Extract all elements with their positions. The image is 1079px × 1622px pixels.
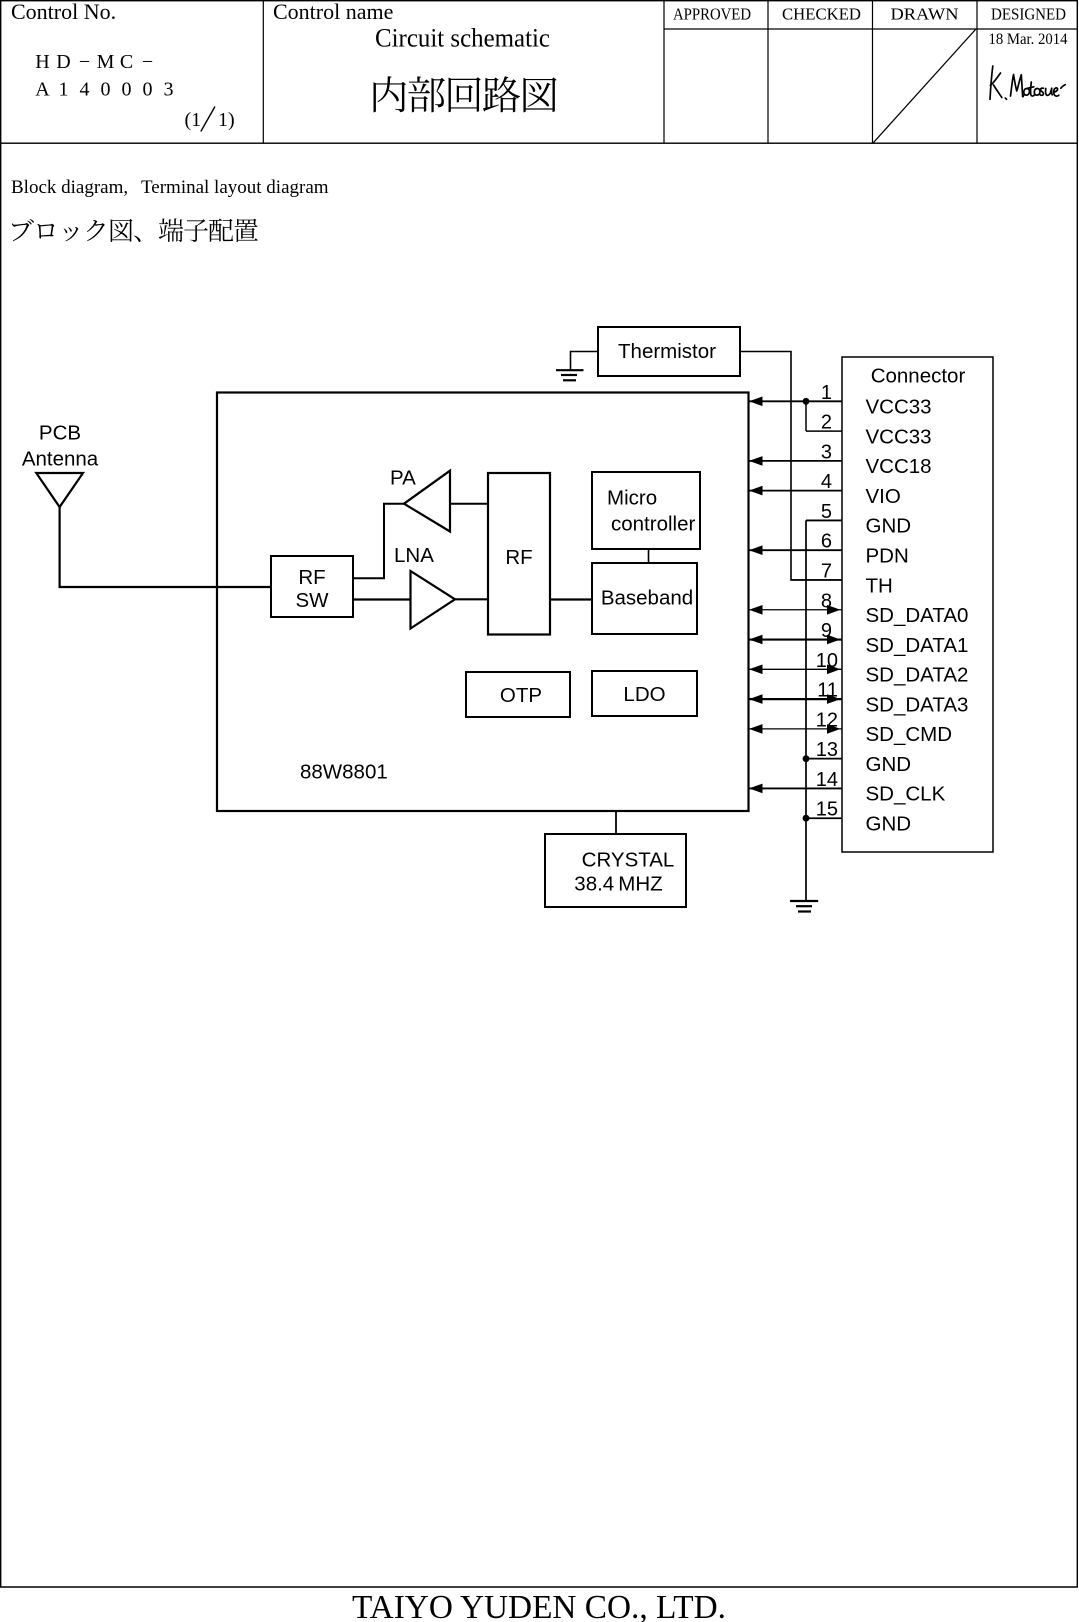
- wire RF SW to PA output: [353, 504, 404, 579]
- svg-text:Terminal layout diagram: Terminal layout diagram: [141, 177, 329, 198]
- signature K.Motosue: [990, 66, 1065, 99]
- svg-text:11: 11: [817, 680, 838, 702]
- svg-text:A: A: [35, 79, 50, 101]
- svg-text:controller: controller: [611, 513, 695, 536]
- label RF: [505, 546, 532, 569]
- OTP box: [466, 672, 570, 717]
- pin 4 number: [821, 471, 832, 493]
- svg-text:3: 3: [164, 79, 174, 101]
- svg-text:VCC33: VCC33: [866, 396, 932, 419]
- svg-text:Block diagram,: Block diagram,: [11, 177, 128, 198]
- CRYSTAL box: [545, 834, 686, 907]
- pin 12 number: [816, 709, 838, 731]
- label Control name: [273, 0, 393, 24]
- title block divider approved / checked: [767, 0, 769, 144]
- title block divider checked / drawn: [872, 0, 874, 144]
- svg-text:TH: TH: [866, 574, 893, 597]
- title Circuit schematic: [375, 24, 550, 53]
- RF SW box: [271, 556, 353, 617]
- pin 2 VCC33 wire: [806, 430, 842, 432]
- svg-text:RF: RF: [505, 546, 532, 569]
- pin 11 number: [817, 680, 838, 702]
- svg-text:SD_DATA3: SD_DATA3: [866, 693, 969, 716]
- Baseband box: [592, 563, 697, 634]
- pin 12 SD_CMD wire: [749, 724, 842, 734]
- svg-text:APPROVED: APPROVED: [673, 5, 751, 24]
- label DESIGNED: [991, 5, 1066, 24]
- amplifier PA (triangle pointing left): [404, 471, 450, 532]
- svg-text:0: 0: [122, 79, 132, 101]
- svg-text:Antenna: Antenna: [22, 448, 99, 471]
- svg-text:CHECKED: CHECKED: [782, 5, 861, 24]
- svg-text:CRYSTAL: CRYSTAL: [582, 849, 675, 872]
- wire pin 2 to pin 1 junction: [805, 401, 807, 431]
- pin 9 number: [821, 620, 832, 642]
- pin 13 name GND: [866, 753, 912, 776]
- svg-text:4: 4: [821, 471, 832, 493]
- label Thermistor: [618, 340, 716, 363]
- svg-text:0: 0: [143, 79, 153, 101]
- svg-text:LNA: LNA: [394, 544, 434, 567]
- pin 10 name SD_DATA2: [866, 664, 969, 687]
- label LNA: [394, 544, 434, 567]
- title block divider control-name / approved: [663, 0, 665, 144]
- GND bus vertical wire: [805, 520, 807, 901]
- svg-text:LDO: LDO: [623, 683, 665, 706]
- label Control No.: [11, 0, 116, 24]
- pin 9 SD_DATA1 wire: [749, 635, 842, 645]
- pin 3 number: [821, 441, 832, 463]
- svg-text:0: 0: [101, 79, 111, 101]
- wire Micro controller to Baseband: [648, 549, 650, 563]
- Connector box: [842, 357, 993, 852]
- svg-text:18 Mar. 2014: 18 Mar. 2014: [989, 31, 1068, 48]
- svg-text:38.4 MHZ: 38.4 MHZ: [574, 873, 662, 896]
- label OTP: [500, 684, 542, 707]
- svg-text:4: 4: [80, 79, 90, 101]
- svg-text:M: M: [97, 51, 115, 73]
- pin 6 PDN wire: [749, 545, 842, 555]
- label DRAWN: [891, 5, 959, 24]
- wire LNA output to RF box: [455, 598, 488, 600]
- svg-text:TAIYO YUDEN CO., LTD.: TAIYO YUDEN CO., LTD.: [352, 1589, 726, 1622]
- wire Thermistor to ground: [571, 352, 599, 371]
- Thermistor box: [598, 327, 740, 376]
- svg-text:9: 9: [821, 620, 832, 642]
- label APPROVED: [673, 5, 751, 24]
- content frame bottom border: [0, 1586, 1078, 1588]
- pin 15 number: [816, 799, 838, 821]
- pin 6 name PDN: [866, 545, 909, 568]
- pin 11 SD_DATA3 wire: [749, 694, 842, 704]
- pin 2 name VCC33: [866, 425, 932, 448]
- wire antenna to RF SW: [60, 507, 271, 587]
- label CHECKED: [782, 5, 861, 24]
- pin 15 name GND: [866, 813, 912, 836]
- svg-text:Thermistor: Thermistor: [618, 340, 716, 363]
- svg-text:SD_DATA0: SD_DATA0: [866, 604, 969, 627]
- pin 13 GND wire: [806, 758, 842, 760]
- svg-text:SD_CLK: SD_CLK: [866, 783, 946, 806]
- wire Thermistor to connector pin 7 (TH): [740, 352, 842, 581]
- wire RF SW to LNA input: [353, 598, 411, 600]
- svg-text:SD_DATA2: SD_DATA2: [866, 664, 969, 687]
- pin 5 name GND: [866, 515, 912, 538]
- junction dot pin 1: [803, 398, 810, 405]
- svg-text:D: D: [56, 51, 70, 73]
- label CRYSTAL 38.4 MHZ: [574, 849, 674, 896]
- pin 14 number: [816, 769, 838, 791]
- label 88W8801: [300, 761, 388, 784]
- svg-text:1: 1: [59, 79, 69, 101]
- svg-text:14: 14: [816, 769, 838, 791]
- pin 5 number: [821, 501, 832, 523]
- svg-text:(1: (1: [185, 109, 202, 131]
- pin 5 GND wire: [806, 519, 842, 521]
- pin 1 number: [821, 382, 832, 404]
- svg-text:PDN: PDN: [866, 545, 909, 568]
- title block divider drawn / designed: [976, 0, 978, 144]
- svg-text:15: 15: [816, 799, 838, 821]
- pin 14 SD_CLK wire: [749, 784, 842, 794]
- title block outer frame: [1, 1, 1078, 144]
- pin 11 name SD_DATA3: [866, 693, 969, 716]
- diagonal slash in DRAWN cell: [874, 30, 976, 143]
- svg-text:2: 2: [821, 412, 832, 434]
- pin 14 name SD_CLK: [866, 783, 946, 806]
- svg-text:10: 10: [816, 650, 838, 672]
- svg-text:PCB: PCB: [39, 422, 81, 445]
- svg-text:1: 1: [821, 382, 832, 404]
- chip 88W8801 block: [217, 393, 749, 812]
- pin 3 name VCC18: [866, 455, 932, 478]
- pin 12 name SD_CMD: [866, 723, 953, 746]
- antenna symbol: [36, 473, 83, 507]
- RF box: [488, 473, 550, 635]
- pin 10 number: [816, 650, 838, 672]
- svg-text:GND: GND: [866, 753, 912, 776]
- svg-text:VCC18: VCC18: [866, 455, 932, 478]
- svg-text:5: 5: [821, 501, 832, 523]
- label PA: [390, 466, 416, 489]
- svg-text:8: 8: [821, 590, 832, 612]
- pin 8 name SD_DATA0: [866, 604, 969, 627]
- label LDO: [623, 683, 665, 706]
- pin 10 SD_DATA2 wire: [749, 665, 842, 675]
- ground symbol (thermistor): [556, 370, 584, 380]
- svg-text:GND: GND: [866, 515, 912, 538]
- svg-text:Circuit schematic: Circuit schematic: [375, 24, 550, 53]
- content frame right border: [1076, 144, 1078, 1587]
- title block divider control-no / control-name: [262, 0, 264, 144]
- pin 7 number: [821, 561, 832, 583]
- svg-text:13: 13: [816, 739, 838, 761]
- svg-text:OTP: OTP: [500, 684, 542, 707]
- pin 4 name VIO: [866, 485, 901, 508]
- pin 3 VCC18 wire: [749, 456, 842, 466]
- wire PA input from RF: [450, 503, 488, 505]
- content frame left border: [0, 144, 2, 1587]
- pin 13 number: [816, 739, 838, 761]
- label Baseband: [601, 587, 693, 610]
- label Connector: [871, 365, 966, 388]
- junction dot pin 13: [803, 755, 810, 762]
- svg-text:Control No.: Control No.: [11, 0, 116, 24]
- pin 1 name VCC33: [866, 396, 932, 419]
- pin 4 VIO wire: [749, 486, 842, 496]
- pin 15 GND wire: [806, 817, 842, 819]
- svg-text:Micro: Micro: [607, 487, 657, 510]
- svg-text:PA: PA: [390, 466, 416, 489]
- svg-text:VIO: VIO: [866, 485, 901, 508]
- amplifier LNA (triangle pointing right): [411, 571, 456, 629]
- pin 8 number: [821, 590, 832, 612]
- svg-text:3: 3: [821, 441, 832, 463]
- svg-text:SW: SW: [295, 589, 329, 612]
- pin 2 number: [821, 412, 832, 434]
- control number line 1 HD-MC-: [35, 51, 153, 73]
- svg-text:C: C: [120, 51, 133, 73]
- title Japanese 内部回路図: [374, 76, 557, 112]
- svg-text:88W8801: 88W8801: [300, 761, 388, 784]
- svg-text:DRAWN: DRAWN: [891, 5, 959, 24]
- label PCB Antenna: [22, 422, 99, 471]
- footer company name: [352, 1589, 726, 1622]
- page count (1/1): [185, 107, 235, 132]
- control number line 2 A140003: [35, 79, 173, 101]
- svg-text:DESIGNED: DESIGNED: [991, 5, 1066, 24]
- designed date 18 Mar. 2014: [989, 31, 1068, 48]
- junction dot pin 15: [803, 815, 810, 822]
- svg-text:SD_DATA1: SD_DATA1: [866, 634, 969, 657]
- wire 88W8801 to CRYSTAL: [615, 811, 617, 834]
- svg-text:GND: GND: [866, 813, 912, 836]
- ground symbol (connector GND bus): [790, 901, 818, 912]
- pin 1 VCC33 wire: [749, 397, 842, 407]
- svg-text:VCC33: VCC33: [866, 425, 932, 448]
- svg-text:−: −: [142, 51, 153, 73]
- heading Japanese ブロック図、端子配置: [12, 218, 258, 242]
- label Micro controller: [607, 487, 695, 536]
- Micro controller box: [592, 472, 700, 549]
- pin 8 SD_DATA0 wire: [749, 605, 842, 615]
- label RF SW: [295, 566, 329, 612]
- svg-text:SD_CMD: SD_CMD: [866, 723, 953, 746]
- svg-text:RF: RF: [298, 566, 325, 589]
- heading Block diagram, Terminal layout diagram: [11, 177, 329, 198]
- svg-text:12: 12: [816, 709, 838, 731]
- svg-text:1): 1): [218, 109, 235, 131]
- pin 7 TH wire: [791, 579, 842, 581]
- svg-text:Control name: Control name: [273, 0, 393, 24]
- svg-text:7: 7: [821, 561, 832, 583]
- svg-text:Baseband: Baseband: [601, 587, 693, 610]
- pin 7 name TH: [866, 574, 893, 597]
- svg-text:Connector: Connector: [871, 365, 966, 388]
- LDO box: [592, 671, 697, 716]
- pin 9 name SD_DATA1: [866, 634, 969, 657]
- wire RF box to Baseband: [550, 598, 592, 600]
- svg-text:6: 6: [821, 531, 832, 553]
- pin 6 number: [821, 531, 832, 553]
- title block header row divider: [664, 28, 1078, 30]
- svg-text:−: −: [79, 51, 90, 73]
- svg-text:H: H: [35, 51, 49, 73]
